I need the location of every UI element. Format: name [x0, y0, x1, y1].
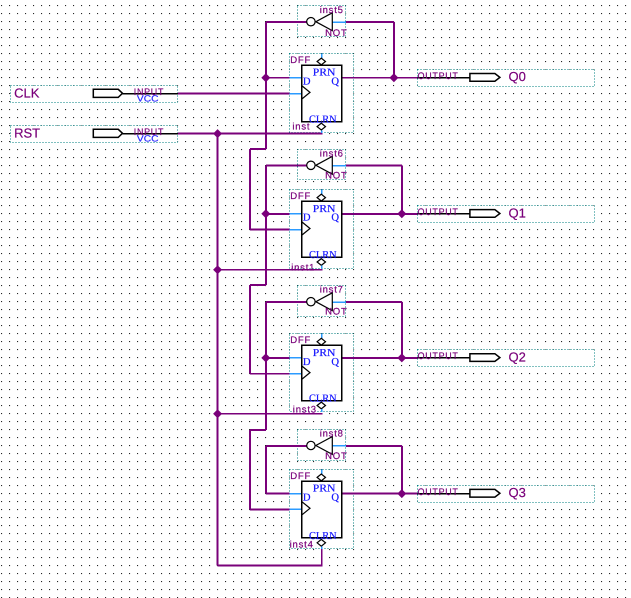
- svg-text:NOT: NOT: [325, 28, 347, 39]
- svg-text:VCC: VCC: [137, 94, 159, 104]
- svg-text:Q: Q: [331, 77, 339, 88]
- svg-text:NOT: NOT: [325, 307, 347, 318]
- svg-text:NOT: NOT: [325, 170, 347, 181]
- svg-text:Q3: Q3: [509, 485, 526, 500]
- svg-text:D: D: [303, 357, 311, 368]
- svg-text:DFF: DFF: [290, 335, 311, 346]
- svg-text:inst3: inst3: [293, 405, 317, 416]
- svg-text:Q2: Q2: [509, 349, 526, 364]
- svg-text:inst6: inst6: [320, 148, 344, 159]
- svg-text:CLK: CLK: [14, 85, 40, 100]
- svg-text:inst: inst: [292, 122, 310, 133]
- svg-text:Q1: Q1: [509, 205, 526, 220]
- svg-text:VCC: VCC: [137, 134, 159, 144]
- svg-text:inst8: inst8: [320, 429, 344, 440]
- svg-text:CLRN: CLRN: [309, 115, 337, 126]
- svg-text:Q0: Q0: [509, 69, 526, 84]
- svg-text:OUTPUT: OUTPUT: [418, 71, 459, 82]
- svg-text:RST: RST: [14, 125, 40, 140]
- svg-text:D: D: [303, 493, 311, 504]
- svg-text:CLRN: CLRN: [309, 250, 337, 261]
- svg-text:OUTPUT: OUTPUT: [418, 351, 459, 362]
- svg-text:DFF: DFF: [290, 471, 311, 482]
- svg-text:OUTPUT: OUTPUT: [418, 487, 459, 498]
- svg-text:CLRN: CLRN: [309, 394, 337, 405]
- svg-text:Q: Q: [331, 213, 339, 224]
- svg-text:inst4: inst4: [290, 539, 314, 550]
- svg-text:NOT: NOT: [325, 451, 347, 462]
- svg-text:DFF: DFF: [290, 55, 311, 66]
- svg-text:OUTPUT: OUTPUT: [418, 207, 459, 218]
- svg-text:DFF: DFF: [290, 191, 311, 202]
- svg-text:D: D: [303, 213, 311, 224]
- svg-text:Q: Q: [331, 357, 339, 368]
- svg-text:inst1: inst1: [291, 263, 315, 274]
- svg-text:D: D: [303, 77, 311, 88]
- svg-text:Q: Q: [331, 493, 339, 504]
- svg-text:inst7: inst7: [320, 284, 344, 295]
- svg-text:inst5: inst5: [320, 5, 344, 16]
